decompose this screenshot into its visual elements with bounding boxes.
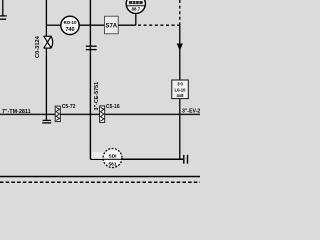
valve C0-3124 (hourglass) bbox=[44, 36, 53, 48]
spec label box on V3 bbox=[172, 80, 189, 99]
svg-text:740: 740 bbox=[66, 27, 75, 33]
wire: vertical pipe V3 bbox=[179, 25, 181, 159]
wire: bottom pipe H3 y=159.2 bbox=[90, 158, 183, 160]
flow arrow on V3 bbox=[177, 44, 183, 51]
wire H1 dashed continuation bbox=[138, 24, 180, 26]
svg-text:C0-3124: C0-3124 bbox=[35, 35, 41, 58]
coil C5-16 bbox=[100, 106, 105, 123]
svg-text:3"-EV-2: 3"-EV-2 bbox=[182, 108, 200, 114]
restriction orifice RO-10 circle bbox=[61, 16, 79, 34]
wire H1 right solid bbox=[118, 24, 136, 26]
orifice flange bars on V2 bbox=[86, 46, 97, 49]
wire H2 bbox=[60, 113, 99, 115]
wire: stub up to top circle bbox=[135, 13, 137, 25]
wire: pipe H2 y=114.4 bbox=[0, 113, 55, 115]
double-bar pipe terminator bbox=[184, 155, 188, 164]
coil C5-72 bbox=[55, 106, 60, 122]
wire: vertical pipe V2 x=90.4 bbox=[89, 0, 91, 159]
instrument bubble SDI/581 (dashed) bbox=[92, 149, 122, 168]
ground / drain symbol top-left bbox=[0, 0, 7, 19]
wire: dashed vertical drop top-right bbox=[179, 0, 181, 25]
svg-text:C5-72: C5-72 bbox=[62, 104, 76, 110]
instrument box S7A bbox=[105, 16, 119, 34]
bottom solid boundary line bbox=[0, 176, 200, 178]
bottom dashed boundary line bbox=[0, 181, 200, 183]
svg-text:3"-CE-5751: 3"-CE-5751 bbox=[94, 82, 100, 111]
svg-text:L0-10: L0-10 bbox=[175, 87, 187, 92]
svg-text:C5-16: C5-16 bbox=[106, 104, 120, 110]
instrument circle (top, clipped) bbox=[126, 0, 145, 13]
wire H1 mid bbox=[79, 24, 104, 26]
svg-text:S7A: S7A bbox=[105, 23, 117, 29]
svg-text:3'0: 3'0 bbox=[177, 82, 183, 87]
svg-text:4x8: 4x8 bbox=[177, 93, 185, 98]
wire: main horizontal header H1 y=25 bbox=[46, 24, 60, 26]
svg-text:SDI: SDI bbox=[109, 153, 118, 159]
svg-text:RO-10: RO-10 bbox=[64, 20, 77, 25]
wire H2 right bbox=[105, 113, 200, 115]
wire: vertical pipe V1 x=46.4 bbox=[45, 0, 47, 120]
drain bars at bottom of V1 bbox=[42, 120, 51, 123]
svg-text:88.7: 88.7 bbox=[132, 6, 141, 11]
svg-text:581: 581 bbox=[108, 162, 116, 168]
